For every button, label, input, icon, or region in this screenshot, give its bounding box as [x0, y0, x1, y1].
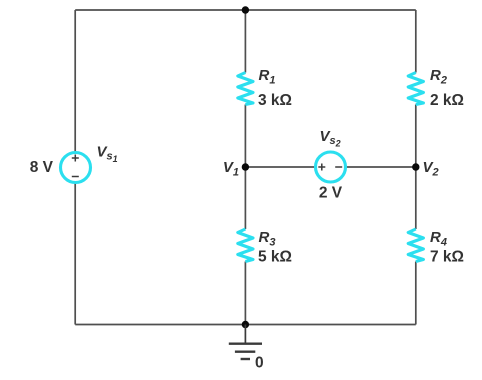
node bottom junction — [242, 321, 249, 328]
svg-text:7 kΩ: 7 kΩ — [430, 249, 464, 266]
node V1 — [223, 159, 249, 179]
resistor R3 — [238, 229, 292, 266]
voltage source VS2 — [316, 128, 346, 202]
wire top — [75, 9, 416, 11]
node top junction — [242, 6, 249, 13]
svg-text:8 V: 8 V — [30, 159, 54, 176]
wire V1 to V2 — [245, 166, 415, 168]
wire bottom — [75, 324, 416, 326]
node V2 — [412, 159, 439, 179]
svg-text:3 kΩ: 3 kΩ — [258, 92, 292, 109]
svg-text:2 V: 2 V — [319, 185, 343, 202]
svg-text:5 kΩ: 5 kΩ — [258, 249, 292, 266]
wire middle between R1 and V1 — [244, 105, 246, 230]
wire right upper — [415, 10, 417, 73]
svg-text:0: 0 — [255, 355, 264, 372]
wire middle upper — [244, 10, 246, 73]
voltage source VS1 — [30, 144, 118, 183]
resistor R1 — [238, 67, 292, 109]
wire middle lower — [244, 262, 246, 325]
resistor R4 — [408, 229, 464, 266]
wire left — [74, 10, 76, 325]
resistor R2 — [408, 67, 464, 109]
ground — [229, 325, 264, 372]
wire right lower — [415, 262, 417, 325]
svg-text:2 kΩ: 2 kΩ — [430, 92, 464, 109]
wire right between R2 and V2 — [415, 105, 417, 230]
